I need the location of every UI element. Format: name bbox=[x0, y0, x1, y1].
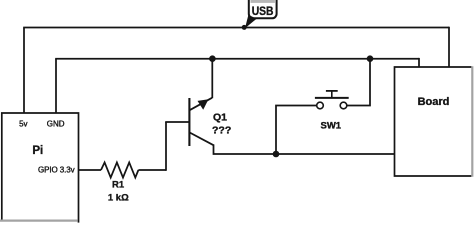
switch SW1 actuator stem bbox=[331, 91, 333, 98]
resistor R1 zigzag body bbox=[101, 162, 138, 177]
wire GND pin up from Pi bbox=[55, 59, 57, 113]
wire Q1 upper lead up to GND rail bbox=[211, 59, 213, 98]
svg-text:1 kΩ: 1 kΩ bbox=[108, 193, 129, 204]
switch SW1 actuator cap bbox=[326, 90, 338, 92]
USB callout tip dot on 5v rail bbox=[242, 25, 247, 30]
transistor Q1 lower diagonal bbox=[189, 132, 213, 145]
wire GPIO lead from Pi to R1 bbox=[79, 169, 102, 171]
svg-text:???: ??? bbox=[212, 125, 231, 137]
Pi box (black top, left, right edges) bbox=[2, 113, 79, 223]
svg-text:R1: R1 bbox=[112, 179, 125, 190]
Pi box grey bottom edge bbox=[0, 219, 77, 221]
transistor Q1 base bar bbox=[188, 98, 190, 146]
USB callout bubble bbox=[249, 0, 277, 18]
USB callout grey header strip bbox=[251, 0, 275, 3]
junction dot at SW1 branch on GND rail bbox=[367, 55, 374, 62]
svg-text:Pi: Pi bbox=[32, 145, 43, 157]
wire R1 to corner bbox=[138, 169, 166, 171]
wire second rail (GND net) bbox=[55, 58, 419, 60]
junction dot at Q1 collector on GND rail bbox=[209, 55, 216, 62]
wire bottom rail up to SW1 left terminal bbox=[276, 106, 317, 155]
wire into Q1 base bbox=[165, 121, 188, 123]
switch SW1 bar bbox=[315, 97, 349, 99]
switch SW1 right contact circle bbox=[340, 102, 347, 109]
transistor Q1 emitter arrowhead bbox=[198, 99, 209, 110]
wire corner up to base level bbox=[165, 122, 167, 171]
svg-text:SW1: SW1 bbox=[321, 121, 342, 132]
switch SW1 left contact circle bbox=[317, 102, 324, 109]
Board box grey right edge bbox=[471, 66, 473, 177]
svg-text:Q1: Q1 bbox=[213, 111, 227, 123]
svg-text:GPIO 3.3v: GPIO 3.3v bbox=[38, 165, 75, 174]
svg-text:Board: Board bbox=[418, 96, 450, 108]
Board box (black top, left, bottom edges) bbox=[395, 67, 472, 176]
wire second rail drop into Board bbox=[418, 58, 420, 67]
svg-text:USB: USB bbox=[252, 4, 274, 18]
wire top rail (5v net) bbox=[23, 27, 449, 29]
wire Q1 lower lead to bottom rail bbox=[214, 144, 395, 154]
svg-text:5v: 5v bbox=[19, 119, 27, 128]
USB callout tail bbox=[245, 15, 257, 28]
wire 5v pin up from Pi bbox=[23, 28, 25, 114]
svg-text:GND: GND bbox=[47, 119, 65, 128]
junction dot at SW1 branch on bottom rail bbox=[273, 151, 280, 158]
transistor Q1 upper diagonal (arrow lead) bbox=[189, 98, 212, 111]
wire SW1 right terminal to GND rail bbox=[347, 59, 370, 106]
wire top rail drop into Board bbox=[448, 27, 450, 67]
